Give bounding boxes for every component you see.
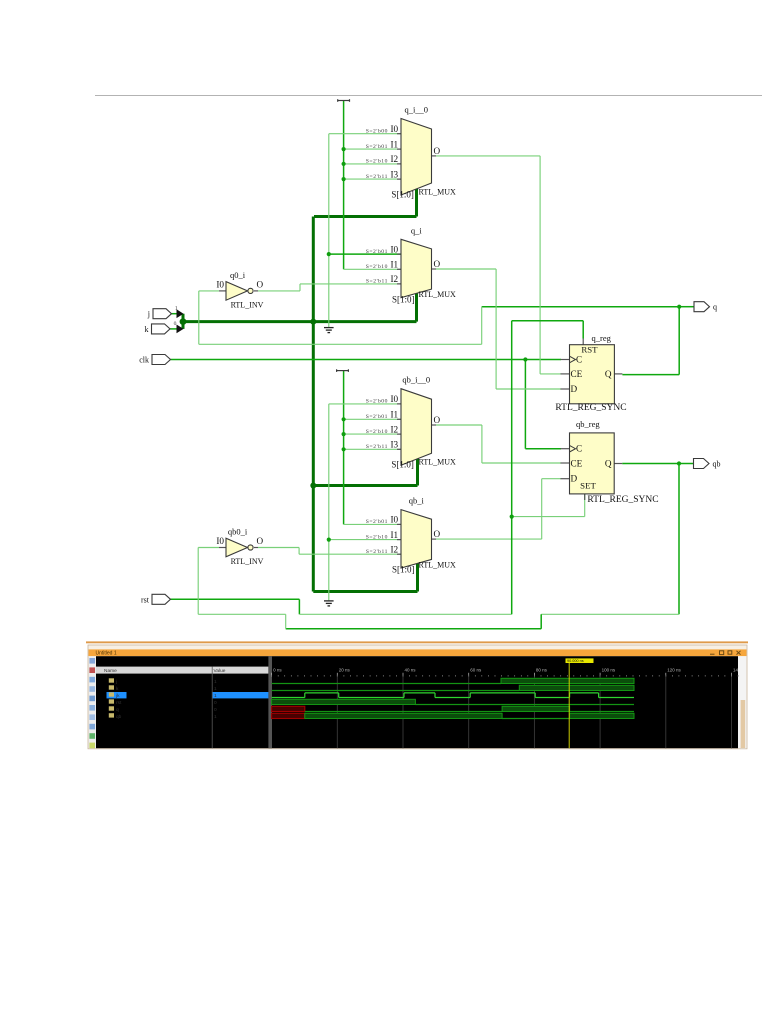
svg-text:I1: I1 bbox=[391, 530, 399, 540]
svg-text:RTL_REG_SYNC: RTL_REG_SYNC bbox=[587, 495, 658, 505]
svg-text:qb_i: qb_i bbox=[409, 496, 425, 506]
svg-text:j: j bbox=[115, 679, 117, 685]
svg-text:O: O bbox=[434, 146, 441, 156]
svg-text:rst: rst bbox=[116, 700, 122, 706]
svg-text:40 ns: 40 ns bbox=[405, 668, 417, 673]
svg-text:60 ns: 60 ns bbox=[470, 668, 482, 673]
svg-text:rst: rst bbox=[141, 595, 150, 604]
svg-text:q_i__0: q_i__0 bbox=[404, 105, 428, 115]
svg-text:I2: I2 bbox=[391, 274, 399, 284]
svg-text:O: O bbox=[257, 279, 264, 289]
svg-text:RTL_MUX: RTL_MUX bbox=[419, 188, 457, 197]
svg-text:I3: I3 bbox=[391, 169, 399, 179]
svg-text:S=2'b10: S=2'b10 bbox=[366, 534, 388, 540]
svg-text:D: D bbox=[571, 474, 578, 484]
svg-text:I1: I1 bbox=[391, 410, 399, 420]
svg-text:RTL_MUX: RTL_MUX bbox=[419, 290, 457, 299]
svg-text:S[1:0]: S[1:0] bbox=[391, 460, 414, 470]
svg-text:SET: SET bbox=[580, 481, 596, 491]
svg-text:S=2'b11: S=2'b11 bbox=[366, 279, 388, 285]
svg-text:I1: I1 bbox=[391, 139, 399, 149]
svg-text:Untitled 1: Untitled 1 bbox=[96, 651, 117, 657]
svg-text:I0: I0 bbox=[391, 124, 399, 134]
svg-text:S[1:0]: S[1:0] bbox=[392, 294, 415, 304]
svg-text:qb: qb bbox=[116, 714, 122, 720]
svg-text:0: 0 bbox=[214, 707, 217, 713]
svg-text:C: C bbox=[576, 354, 582, 364]
svg-text:I2: I2 bbox=[391, 154, 399, 164]
svg-text:14: 14 bbox=[733, 668, 739, 673]
svg-text:S=2'b00: S=2'b00 bbox=[366, 129, 388, 135]
svg-text:O: O bbox=[257, 536, 264, 546]
svg-text:20 ns: 20 ns bbox=[339, 668, 351, 673]
svg-text:O: O bbox=[434, 415, 441, 425]
svg-text:jk: jk bbox=[115, 693, 120, 699]
svg-text:S=2'b11: S=2'b11 bbox=[366, 549, 388, 555]
svg-text:clk: clk bbox=[139, 356, 149, 365]
svg-text:S=2'b11: S=2'b11 bbox=[366, 444, 388, 450]
svg-text:1: 1 bbox=[214, 714, 217, 720]
svg-text:0: 0 bbox=[174, 321, 177, 327]
svg-text:S=2'b10: S=2'b10 bbox=[366, 429, 388, 435]
svg-text:S=2'b10: S=2'b10 bbox=[366, 159, 388, 165]
svg-text:q: q bbox=[713, 303, 717, 312]
svg-text:O: O bbox=[434, 529, 441, 539]
svg-text:q0_i: q0_i bbox=[230, 270, 246, 280]
svg-text:S=2'b10: S=2'b10 bbox=[366, 264, 388, 270]
svg-text:S=2'b01: S=2'b01 bbox=[366, 414, 388, 420]
svg-text:RTL_MUX: RTL_MUX bbox=[419, 458, 457, 467]
svg-text:I2: I2 bbox=[391, 544, 399, 554]
svg-text:k: k bbox=[145, 325, 149, 334]
svg-text:C: C bbox=[576, 444, 582, 454]
svg-text:I0: I0 bbox=[391, 394, 399, 404]
svg-text:I0: I0 bbox=[216, 536, 224, 546]
svg-text:I0: I0 bbox=[391, 244, 399, 254]
svg-text:I2: I2 bbox=[391, 424, 399, 434]
svg-text:I0: I0 bbox=[391, 515, 399, 525]
svg-text:I0: I0 bbox=[216, 279, 224, 289]
svg-text:90.000 ns: 90.000 ns bbox=[567, 659, 584, 663]
svg-text:q_reg: q_reg bbox=[592, 333, 612, 343]
svg-text:Value: Value bbox=[214, 668, 226, 674]
svg-text:q_i: q_i bbox=[411, 225, 423, 235]
svg-text:CE: CE bbox=[571, 369, 583, 379]
svg-text:I1: I1 bbox=[391, 260, 399, 270]
svg-text:qb0_i: qb0_i bbox=[228, 527, 248, 537]
svg-text:O: O bbox=[434, 259, 441, 269]
svg-text:1: 1 bbox=[175, 305, 178, 311]
svg-text:80 ns: 80 ns bbox=[536, 668, 548, 673]
svg-text:0 ns: 0 ns bbox=[273, 668, 282, 673]
svg-text:S[1:0]: S[1:0] bbox=[392, 565, 415, 575]
svg-text:100 ns: 100 ns bbox=[602, 668, 616, 673]
svg-text:I3: I3 bbox=[391, 440, 399, 450]
svg-text:1: 1 bbox=[214, 686, 217, 692]
svg-text:qb: qb bbox=[713, 460, 721, 469]
svg-text:S[1:0]: S[1:0] bbox=[391, 190, 414, 200]
svg-text:qb_reg: qb_reg bbox=[576, 419, 600, 429]
svg-text:S=2'b01: S=2'b01 bbox=[366, 249, 388, 255]
svg-text:RTL_REG_SYNC: RTL_REG_SYNC bbox=[555, 403, 626, 413]
svg-text:S=2'b11: S=2'b11 bbox=[366, 174, 388, 180]
svg-text:1: 1 bbox=[214, 679, 217, 685]
svg-text:S=2'b01: S=2'b01 bbox=[366, 519, 388, 525]
svg-text:0: 0 bbox=[214, 700, 217, 706]
svg-text:S=2'b00: S=2'b00 bbox=[366, 399, 388, 405]
svg-text:RTL_INV: RTL_INV bbox=[231, 301, 264, 310]
svg-text:120 ns: 120 ns bbox=[667, 668, 681, 673]
svg-text:D: D bbox=[571, 384, 578, 394]
svg-text:j: j bbox=[147, 310, 150, 319]
svg-text:Name: Name bbox=[104, 668, 117, 674]
svg-text:Q: Q bbox=[605, 459, 612, 469]
svg-text:CE: CE bbox=[571, 458, 583, 468]
svg-text:S=2'b01: S=2'b01 bbox=[366, 144, 388, 150]
svg-text:qb_i__0: qb_i__0 bbox=[402, 375, 430, 385]
svg-text:Q: Q bbox=[605, 369, 612, 379]
svg-text:q: q bbox=[116, 708, 119, 713]
svg-text:RTL_MUX: RTL_MUX bbox=[419, 560, 457, 569]
svg-text:1: 1 bbox=[214, 693, 217, 699]
svg-text:RTL_INV: RTL_INV bbox=[231, 557, 264, 566]
svg-text:RST: RST bbox=[581, 344, 598, 354]
